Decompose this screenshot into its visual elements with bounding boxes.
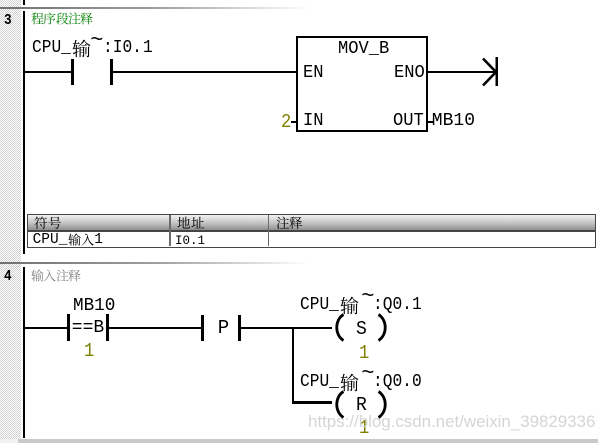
OUT pin tick [428,121,433,124]
network 4 comment 输入注释 [31,269,44,282]
S coil operand 1 [359,344,369,363]
wire ENO to open branch arrow [428,71,496,73]
pin ENO [394,64,425,82]
operand label CPU_输~:Q0.0 [300,373,339,391]
coil R left paren [330,390,346,419]
branch vertical wire [292,327,295,404]
compare text ==B [72,319,104,337]
left gutter (dithered margin) [0,0,21,439]
pin IN [303,112,324,130]
wire rail to compare contact [25,327,67,329]
compare operand 1 [84,342,94,361]
wire P contact to S coil [241,327,333,329]
instruction box MOV_B U1 [296,36,428,132]
power rail network 3 [23,11,25,254]
coil letter S [356,320,367,339]
IN operand value 2 [281,113,291,132]
box title MOV_B [338,40,389,58]
P contact right bar [238,315,241,342]
operand label CPU_输~:Q0.1 [300,296,339,314]
header 地址 [177,216,191,230]
power rail stub from previous network [23,0,25,5]
wire rail to contact [25,71,71,73]
open branch arrow [480,55,500,89]
edge contact P [218,319,229,338]
network 3 comment 程序段注释 [31,12,44,25]
coil S left paren [330,313,346,342]
symbol table header row [28,215,595,230]
coil S right paren [376,313,392,342]
IN pin tick [291,121,296,124]
contact I0.1 left bar [71,59,74,85]
wire contact to MOV_B EN [113,71,297,73]
watermark [308,414,595,431]
wire compare to P contact [109,327,201,329]
operand label MB10 [73,297,115,315]
coil letter R [356,396,367,415]
coil R right paren [376,390,392,419]
column separator 2 [268,215,270,246]
branch horizontal wire to R coil [294,401,332,404]
symbol table [27,214,596,248]
compare contact left bar [67,314,70,341]
header 注释 [276,216,290,230]
network 3 separator line [0,7,598,9]
header 符号 [34,216,48,230]
table cell CPU_输入1 [33,233,68,248]
contact I0.1 right bar [110,59,113,85]
OUT operand MB10 [432,112,475,130]
network 4 separator line [0,262,598,264]
table cell I0.1 [175,234,205,247]
operand label CPU_输~:I0.1 [32,39,71,57]
bottom scrollbar strip left [0,439,18,443]
pin EN [303,64,324,82]
header underline [28,230,595,232]
bottom scrollbar strip [18,439,598,443]
network number 4 [4,269,12,284]
R coil operand 1 [359,419,369,438]
power rail network 4 [23,267,25,438]
pin OUT [393,112,424,130]
compare contact right bar [106,314,109,341]
P contact left bar [201,315,204,342]
network number 3 [4,13,12,28]
column separator 1 [169,215,171,246]
